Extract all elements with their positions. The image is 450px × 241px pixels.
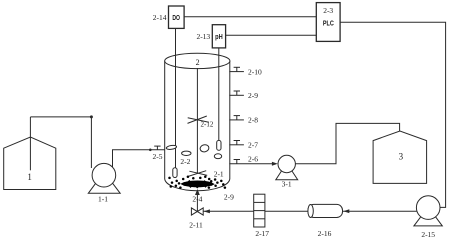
svg-text:1-1: 1-1 xyxy=(98,195,108,204)
svg-text:2-6: 2-6 xyxy=(248,154,258,163)
fermenter tank 2 body xyxy=(165,53,230,191)
wire pH to PLC xyxy=(226,34,317,36)
pipe port 2-6 to pump 3-1 xyxy=(229,163,272,165)
bubble xyxy=(182,151,191,155)
pump 3-1 xyxy=(276,155,298,188)
DO meter 2-14 xyxy=(153,6,184,28)
DO probe line xyxy=(175,28,177,168)
aeration dots xyxy=(168,175,226,188)
pH probe tip xyxy=(217,140,221,150)
wire from tank 1 to pump 1-1 xyxy=(30,117,91,168)
port 2-9 xyxy=(229,91,258,100)
bubble xyxy=(214,154,221,159)
svg-text:DO: DO xyxy=(172,15,180,22)
svg-text:2-7: 2-7 xyxy=(248,141,258,150)
svg-text:2: 2 xyxy=(196,58,200,67)
svg-text:2-5: 2-5 xyxy=(153,152,163,161)
svg-text:2-10: 2-10 xyxy=(248,67,262,76)
wire PLC to pump 2-15 xyxy=(340,22,446,207)
svg-text:2-14: 2-14 xyxy=(153,13,167,22)
column 2-17 xyxy=(254,194,270,238)
pipe pump 3-1 to tank 3 xyxy=(295,123,399,163)
sparger (black) xyxy=(180,180,215,189)
svg-text:2-12: 2-12 xyxy=(201,121,214,129)
svg-text:PLC: PLC xyxy=(323,21,334,28)
inlet capsule at port 2-5 xyxy=(166,145,177,150)
arrowhead into pump 3-1 xyxy=(272,162,278,166)
tank 3 (collection tank) xyxy=(373,131,427,183)
svg-text:2-9: 2-9 xyxy=(224,193,234,202)
svg-text:2-15: 2-15 xyxy=(421,230,435,239)
svg-text:2-11: 2-11 xyxy=(189,221,203,230)
stirrer shaft xyxy=(196,68,198,173)
svg-text:2-13: 2-13 xyxy=(196,32,210,41)
port 2-6 xyxy=(234,154,259,163)
PLC controller 2-3 xyxy=(316,3,340,42)
svg-text:2-2: 2-2 xyxy=(180,157,190,166)
pH meter 2-13 xyxy=(196,25,225,48)
svg-text:2-17: 2-17 xyxy=(255,229,269,238)
port 2-10 xyxy=(229,67,262,76)
svg-text:3-1: 3-1 xyxy=(282,179,292,188)
svg-text:2-9: 2-9 xyxy=(248,91,258,100)
svg-text:2-8: 2-8 xyxy=(248,116,258,125)
pipe pump 1-1 to port 2-5 xyxy=(113,150,165,167)
svg-text:pH: pH xyxy=(215,34,223,41)
impeller 2-12 xyxy=(188,116,214,129)
valve 2-11 xyxy=(189,208,203,230)
junction dot xyxy=(90,115,93,118)
recycle pipe from pump 2-15 to valve xyxy=(203,210,416,212)
svg-text:2-16: 2-16 xyxy=(318,229,332,238)
filter 2-16 xyxy=(308,204,343,238)
port 2-7 xyxy=(229,141,258,150)
arrowhead into filter 2-16 xyxy=(343,209,349,213)
pH probe line xyxy=(218,48,220,141)
port 2-8 xyxy=(229,116,258,125)
bubble xyxy=(199,144,209,153)
impeller 2-1 xyxy=(187,170,224,179)
svg-text:2-3: 2-3 xyxy=(323,6,333,15)
svg-text:1: 1 xyxy=(27,172,32,182)
dip tube into tank 1 xyxy=(29,117,31,170)
svg-text:2-4: 2-4 xyxy=(192,194,202,203)
wire DO to PLC xyxy=(184,16,316,18)
svg-text:2-1: 2-1 xyxy=(214,170,224,179)
DO probe tip xyxy=(173,168,177,178)
svg-text:3: 3 xyxy=(399,151,404,161)
pump 1-1 xyxy=(88,163,120,203)
drain pipe 2-4 with up arrow xyxy=(192,189,202,211)
tank 1 (left feed tank) xyxy=(4,137,56,190)
pump 2-15 xyxy=(414,196,442,239)
port 2-5 xyxy=(149,146,163,161)
arrowhead into valve 2-11 xyxy=(204,209,210,213)
